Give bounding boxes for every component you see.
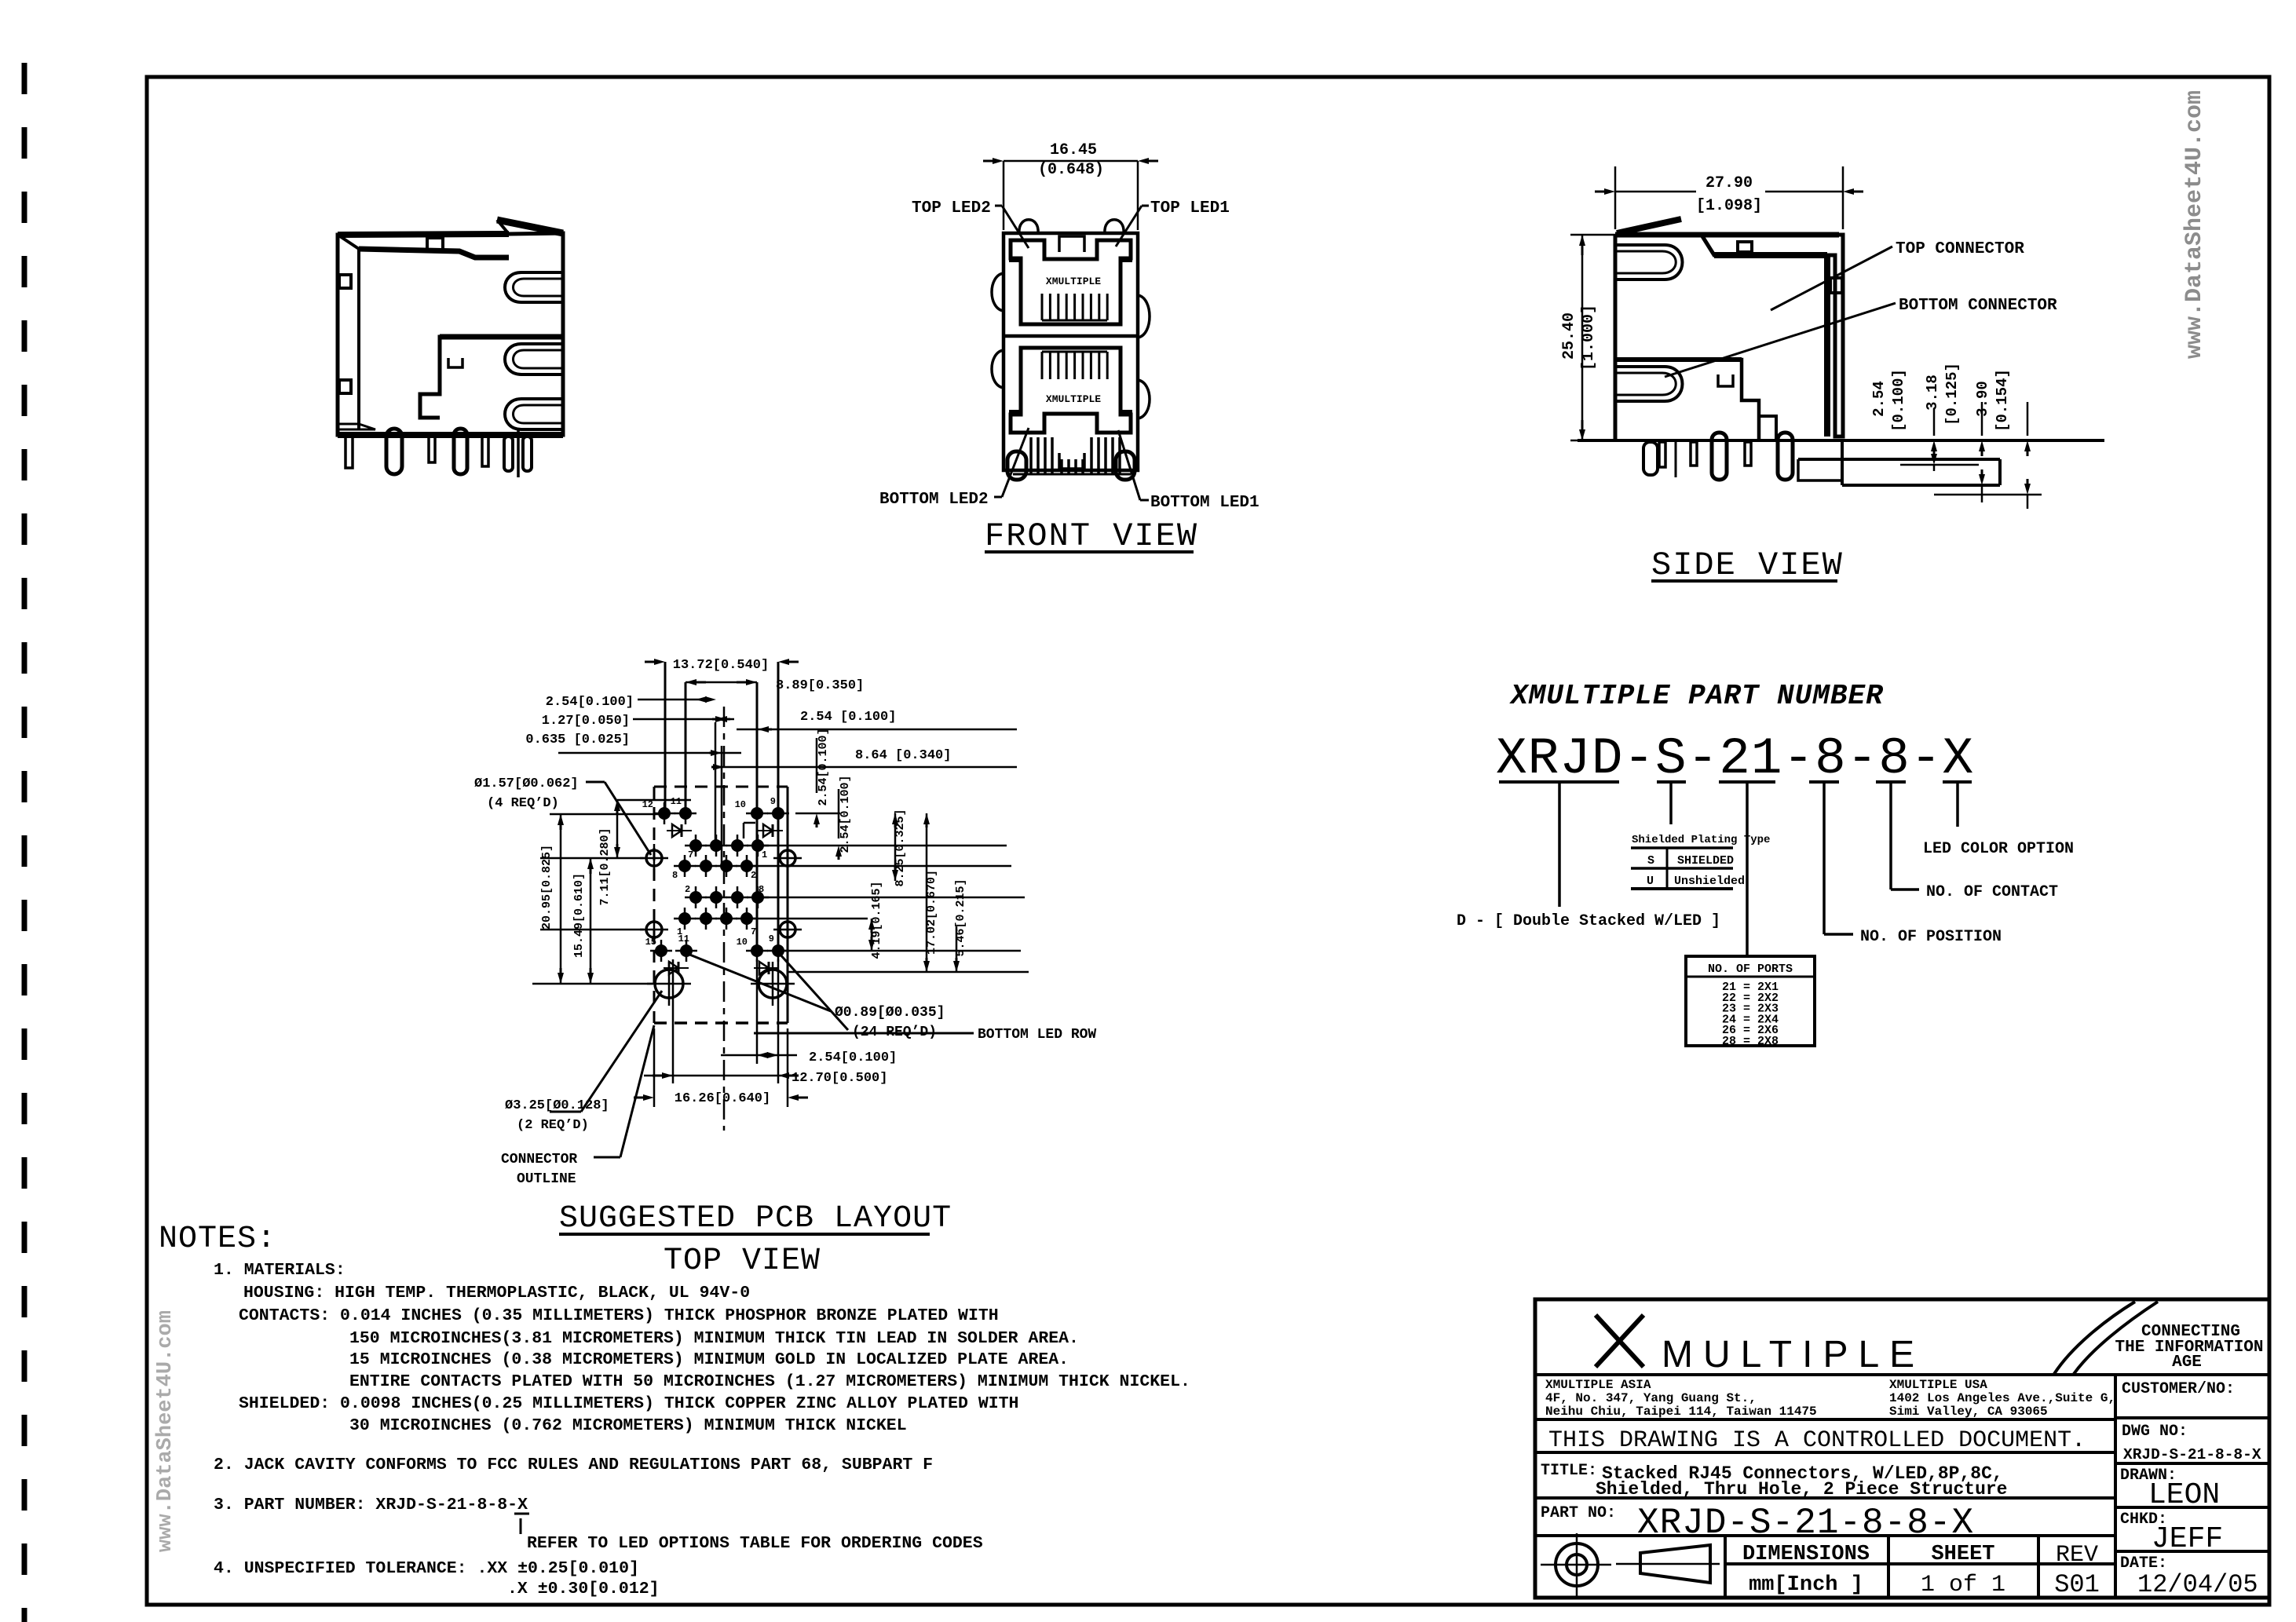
drop line D xyxy=(1558,782,1561,907)
svg-text:NO. OF POSITION: NO. OF POSITION xyxy=(1860,928,2002,946)
svg-text:16.45: 16.45 xyxy=(1050,141,1097,159)
svg-text:1: 1 xyxy=(762,849,767,860)
svg-text:SUGGESTED PCB LAYOUT: SUGGESTED PCB LAYOUT xyxy=(559,1201,952,1237)
svg-text:JEFF: JEFF xyxy=(2152,1522,2223,1556)
svg-text:ENTIRE CONTACTS PLATED WITH 50: ENTIRE CONTACTS PLATED WITH 50 MICROINCH… xyxy=(349,1372,1190,1391)
svg-text:SHIELDED: SHIELDED xyxy=(1677,854,1734,868)
front top latch slot xyxy=(1059,236,1084,252)
svg-text:15 MICROINCHES (0.38 MICROMETE: 15 MICROINCHES (0.38 MICROMETERS) MINIMU… xyxy=(349,1350,1069,1369)
svg-text:4. UNSPECIFIED TOLERANCE: .XX: 4. UNSPECIFIED TOLERANCE: .XX ±0.25[0.01… xyxy=(214,1559,639,1578)
svg-text:Shielded, Thru Hole, 2 Piece S: Shielded, Thru Hole, 2 Piece Structure xyxy=(1596,1479,2008,1500)
ports table xyxy=(1686,956,1815,1046)
side bottom jack xyxy=(1615,360,1759,440)
svg-text:(4 REQ’D): (4 REQ’D) xyxy=(487,796,559,811)
pads row3 xyxy=(689,891,702,904)
svg-text:1402 Los Angeles Ave.,Suite G,: 1402 Los Angeles Ave.,Suite G, xyxy=(1889,1391,2115,1405)
front view body outline xyxy=(1004,233,1138,470)
logo swoosh xyxy=(2054,1302,2135,1374)
svg-text:D - [ Double Stacked W/LED ]: D - [ Double Stacked W/LED ] xyxy=(1457,912,1720,930)
svg-text:TOP LED2: TOP LED2 xyxy=(912,199,991,217)
pcb connector outline xyxy=(654,786,788,788)
drop line contact xyxy=(1889,782,1892,890)
svg-text:30 MICROINCHES (0.762 MICROMET: 30 MICROINCHES (0.762 MICROMETERS) MINIM… xyxy=(349,1416,907,1435)
pads bottom led row xyxy=(655,944,667,957)
logo X xyxy=(1596,1315,1643,1367)
svg-text:Neihu Chiu, Taipei 114, Taiwan: Neihu Chiu, Taipei 114, Taiwan 11475 xyxy=(1545,1405,1817,1419)
svg-text:7.11[0.280]: 7.11[0.280] xyxy=(598,827,612,905)
svg-text:CUSTOMER/NO:: CUSTOMER/NO: xyxy=(2122,1380,2235,1398)
svg-text:8.64 [0.340]: 8.64 [0.340] xyxy=(855,748,951,763)
drop line led color xyxy=(1956,782,1959,827)
svg-text:2. JACK CAVITY CONFORMS TO FCC: 2. JACK CAVITY CONFORMS TO FCC RULES AND… xyxy=(214,1456,933,1474)
svg-text:8.89[0.350]: 8.89[0.350] xyxy=(776,678,864,693)
svg-text:BOTTOM LED1: BOTTOM LED1 xyxy=(1150,494,1260,512)
alignment holes 1.57 xyxy=(646,850,662,866)
svg-text:XMULTIPLE: XMULTIPLE xyxy=(1046,393,1101,405)
svg-text:BOTTOM CONNECTOR: BOTTOM CONNECTOR xyxy=(1899,297,2057,315)
svg-text:DWG NO:: DWG NO: xyxy=(2122,1423,2188,1441)
iso spring finger bottom xyxy=(505,399,563,429)
svg-text:0.635 [0.025]: 0.635 [0.025] xyxy=(525,732,630,747)
svg-text:REV: REV xyxy=(2056,1542,2098,1569)
iso left panel squares xyxy=(339,275,351,288)
svg-text:.X ±0.30[0.012]: .X ±0.30[0.012] xyxy=(507,1580,660,1598)
front bottom jack opening xyxy=(1011,348,1131,433)
iso top square hole xyxy=(427,238,443,250)
svg-text:S01: S01 xyxy=(2054,1570,2100,1599)
side pins xyxy=(1643,442,1658,475)
svg-text:8: 8 xyxy=(672,870,678,881)
svg-text:[1.098]: [1.098] xyxy=(1696,197,1762,215)
svg-text:3.90: 3.90 xyxy=(1974,381,1991,417)
pcb ext verticals xyxy=(664,662,667,809)
projection symbol cone xyxy=(1640,1545,1710,1583)
side ground tab xyxy=(1617,219,1681,233)
front view pins xyxy=(1029,437,1033,474)
svg-text:4F, No. 347, Yang Guang St.,: 4F, No. 347, Yang Guang St., xyxy=(1545,1391,1757,1405)
svg-text:11: 11 xyxy=(678,933,689,944)
front bottom latch slot xyxy=(1059,453,1084,469)
svg-text:CONTACTS: 0.014 INCHES (0.35 M: CONTACTS: 0.014 INCHES (0.35 MILLIMETERS… xyxy=(239,1306,999,1325)
svg-text:XMULTIPLE PART NUMBER: XMULTIPLE PART NUMBER xyxy=(1509,680,1884,712)
top diodes xyxy=(672,824,682,837)
front top jack contacts xyxy=(1041,294,1044,320)
svg-text:9: 9 xyxy=(769,933,774,944)
svg-text:7: 7 xyxy=(688,849,693,860)
side top square xyxy=(1738,242,1752,252)
iso spring finger mid xyxy=(505,344,563,374)
svg-text:[0.125]: [0.125] xyxy=(1943,363,1961,426)
front top jack opening xyxy=(1011,240,1131,324)
svg-text:HOUSING: HIGH TEMP. THERMOPLAS: HOUSING: HIGH TEMP. THERMOPLASTIC, BLACK… xyxy=(243,1284,750,1302)
svg-text:LED COLOR OPTION: LED COLOR OPTION xyxy=(1923,840,2074,858)
svg-text:2: 2 xyxy=(751,870,756,881)
svg-text:9: 9 xyxy=(770,796,776,807)
svg-text:27.90: 27.90 xyxy=(1706,174,1753,192)
svg-text:(0.648): (0.648) xyxy=(1038,161,1104,179)
front side bumps xyxy=(992,273,1004,311)
part number underlines xyxy=(1499,780,1619,784)
svg-text:XRJD-S-21-8-8-X: XRJD-S-21-8-8-X xyxy=(2123,1446,2261,1463)
title block frame xyxy=(1535,1299,2269,1598)
svg-text:XRJD-S-21-8-8-X: XRJD-S-21-8-8-X xyxy=(1496,729,1974,788)
svg-text:SHIELDED: 0.0098 INCHES(0.25 M: SHIELDED: 0.0098 INCHES(0.25 MILLIMETERS… xyxy=(239,1394,1018,1413)
iso bottom jack body xyxy=(420,337,563,418)
side spring fingers xyxy=(1615,245,1683,279)
svg-text:TOP VIEW: TOP VIEW xyxy=(664,1244,821,1279)
svg-text:NO. OF CONTACT: NO. OF CONTACT xyxy=(1926,883,2058,901)
svg-text:TOP CONNECTOR: TOP CONNECTOR xyxy=(1896,240,2024,258)
front bottom jack contacts xyxy=(1041,352,1044,379)
svg-text:REFER TO LED OPTIONS TABLE FOR: REFER TO LED OPTIONS TABLE FOR ORDERING … xyxy=(527,1534,983,1553)
svg-text:25.40: 25.40 xyxy=(1560,312,1578,360)
svg-text:7: 7 xyxy=(751,926,756,937)
left dim chain xyxy=(550,813,664,816)
svg-text:2.54: 2.54 xyxy=(1870,381,1888,417)
svg-text:MULTIPLE: MULTIPLE xyxy=(1662,1334,1925,1375)
svg-text:FRONT VIEW: FRONT VIEW xyxy=(985,517,1198,555)
svg-text:1 of 1: 1 of 1 xyxy=(1921,1572,2005,1598)
svg-text:BOTTOM LED ROW: BOTTOM LED ROW xyxy=(978,1027,1096,1043)
side view body xyxy=(1615,235,1843,437)
pads row4 xyxy=(678,912,691,925)
side baseline pcb top xyxy=(1578,439,2104,442)
svg-text:NO. OF PORTS: NO. OF PORTS xyxy=(1708,963,1793,976)
svg-text:2.54[0.100]: 2.54[0.100] xyxy=(809,1050,897,1065)
svg-text:U: U xyxy=(1647,875,1654,888)
svg-text:[0.154]: [0.154] xyxy=(1994,369,2011,432)
svg-text:Ø0.89[Ø0.035]: Ø0.89[Ø0.035] xyxy=(835,1005,945,1021)
mounting holes 3.25 xyxy=(655,970,683,998)
pads top led row xyxy=(658,807,671,820)
drop line S xyxy=(1669,782,1673,824)
svg-text:12/04/05: 12/04/05 xyxy=(2137,1570,2258,1599)
svg-text:Shielded Plating Type: Shielded Plating Type xyxy=(1632,834,1770,846)
svg-text:Ø1.57[Ø0.062]: Ø1.57[Ø0.062] xyxy=(474,776,579,791)
svg-text:www.DataSheet4U.com: www.DataSheet4U.com xyxy=(154,1310,177,1552)
svg-text:SHEET: SHEET xyxy=(1931,1543,1994,1566)
svg-text:PART NO:: PART NO: xyxy=(1541,1504,1616,1522)
iso view connector body xyxy=(338,233,563,435)
svg-text:150 MICROINCHES(3.81 MICROMETE: 150 MICROINCHES(3.81 MICROMETERS) MINIMU… xyxy=(349,1329,1079,1348)
svg-text:13.72[0.540]: 13.72[0.540] xyxy=(673,658,769,673)
svg-text:2.54[0.100]: 2.54[0.100] xyxy=(546,695,634,710)
svg-text:2: 2 xyxy=(685,884,690,895)
title block hlines left xyxy=(1535,1373,2269,1376)
front view top latch bumps xyxy=(1019,220,1038,233)
svg-text:S: S xyxy=(1647,854,1654,868)
svg-text:XMULTIPLE USA: XMULTIPLE USA xyxy=(1889,1378,1987,1392)
title block vlines xyxy=(2114,1375,2117,1598)
svg-text:TOP LED1: TOP LED1 xyxy=(1150,199,1230,217)
bottom diodes xyxy=(669,962,678,974)
svg-text:10: 10 xyxy=(737,937,748,948)
svg-text:2.54[0.100]: 2.54[0.100] xyxy=(839,775,852,853)
svg-text:Simi Valley, CA 93065: Simi Valley, CA 93065 xyxy=(1889,1405,2048,1419)
svg-text:1. MATERIALS:: 1. MATERIALS: xyxy=(214,1261,345,1280)
svg-text:XMULTIPLE ASIA: XMULTIPLE ASIA xyxy=(1545,1378,1651,1392)
right dim chain horizontals xyxy=(758,845,1007,847)
svg-text:11: 11 xyxy=(671,796,682,807)
svg-text:THIS DRAWING IS A CONTROLLED D: THIS DRAWING IS A CONTROLLED DOCUMENT. xyxy=(1548,1427,2086,1454)
title block hlines right col xyxy=(2115,1416,2269,1419)
svg-text:1.27[0.050]: 1.27[0.050] xyxy=(542,714,630,729)
svg-text:BOTTOM LED2: BOTTOM LED2 xyxy=(879,491,989,509)
svg-text:mm[Inch ]: mm[Inch ] xyxy=(1749,1573,1863,1597)
svg-text:Unshielded: Unshielded xyxy=(1674,875,1745,888)
svg-text:DIMENSIONS: DIMENSIONS xyxy=(1742,1543,1870,1566)
svg-text:TITLE:: TITLE: xyxy=(1541,1462,1597,1480)
svg-text:(2 REQ’D): (2 REQ’D) xyxy=(517,1118,589,1133)
iso spring finger top xyxy=(505,272,563,302)
svg-text:XMULTIPLE: XMULTIPLE xyxy=(1046,276,1101,287)
svg-text:28 = 2X8: 28 = 2X8 xyxy=(1722,1035,1779,1048)
svg-text:10: 10 xyxy=(735,799,746,810)
drop line ports xyxy=(1746,782,1749,956)
svg-text:AGE: AGE xyxy=(2172,1353,2202,1372)
side pcb bar xyxy=(1798,458,2000,461)
svg-text:SIDE VIEW: SIDE VIEW xyxy=(1651,546,1844,584)
svg-text:12.70[0.500]: 12.70[0.500] xyxy=(792,1071,887,1086)
svg-text:OUTLINE: OUTLINE xyxy=(517,1171,576,1187)
pads row1 xyxy=(689,839,702,852)
svg-text:3. PART NUMBER: XRJD-S-21-8-8-: 3. PART NUMBER: XRJD-S-21-8-8-X xyxy=(214,1496,528,1514)
left punch dashed line xyxy=(22,63,27,1622)
svg-text:20.95[0.825]: 20.95[0.825] xyxy=(540,845,554,930)
svg-text:16.26[0.640]: 16.26[0.640] xyxy=(675,1091,770,1106)
side rear square xyxy=(1830,278,1842,293)
svg-text:XRJD-S-21-8-8-X: XRJD-S-21-8-8-X xyxy=(1637,1503,1974,1543)
iso pins xyxy=(345,437,353,468)
svg-text:CONNECTOR: CONNECTOR xyxy=(501,1152,577,1167)
notes part number tick xyxy=(514,1513,529,1515)
svg-text:2.54 [0.100]: 2.54 [0.100] xyxy=(800,710,896,725)
svg-text:LEON: LEON xyxy=(2148,1478,2220,1512)
svg-text:8: 8 xyxy=(759,884,764,895)
pcb centerline xyxy=(723,707,726,1131)
svg-text:15.49[0.610]: 15.49[0.610] xyxy=(572,873,586,958)
svg-text:www.DataSheet4U.com: www.DataSheet4U.com xyxy=(2181,90,2208,359)
projection symbol circle xyxy=(1556,1543,1598,1586)
svg-text:2.54[0.100]: 2.54[0.100] xyxy=(817,728,830,806)
drop line position xyxy=(1823,782,1826,934)
svg-text:3.18: 3.18 xyxy=(1924,374,1941,411)
iso bottom rail xyxy=(338,432,563,438)
svg-text:NOTES:: NOTES: xyxy=(159,1222,276,1257)
pads row2 xyxy=(678,860,691,872)
svg-text:[0.100]: [0.100] xyxy=(1890,369,1907,432)
